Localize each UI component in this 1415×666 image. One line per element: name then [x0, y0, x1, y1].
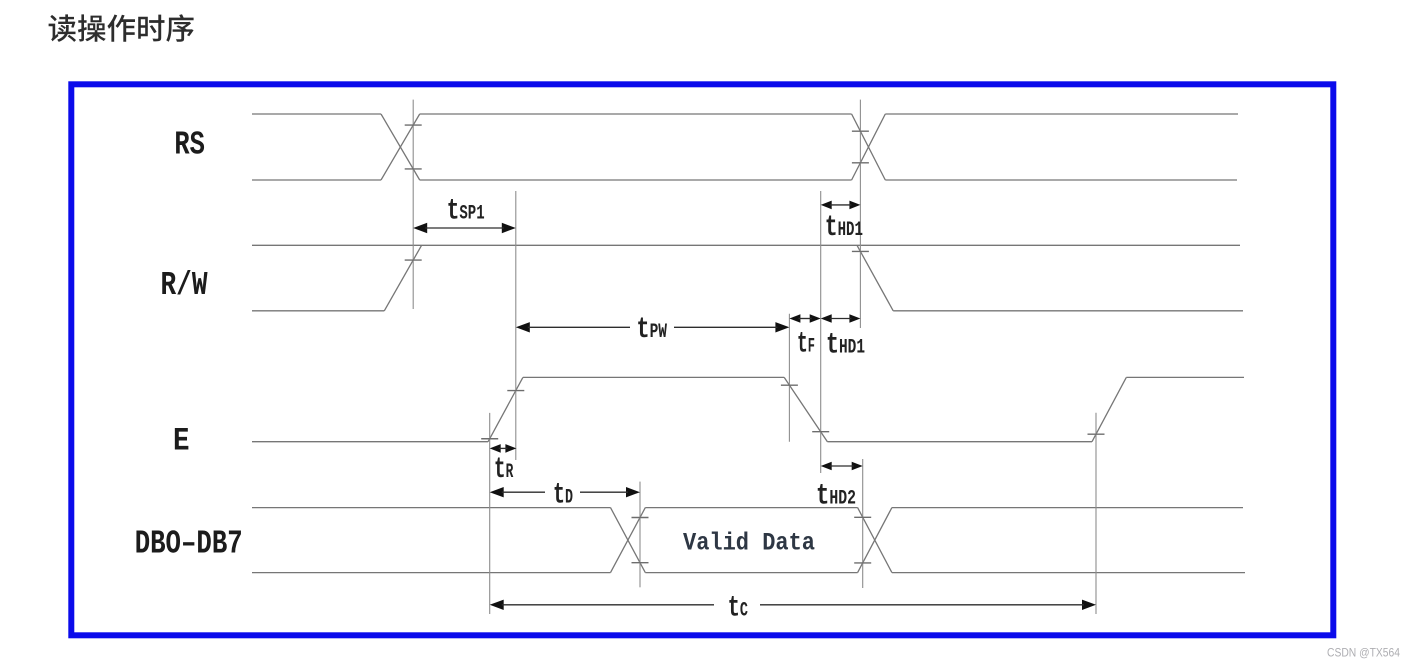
DB crossover 2 — [858, 508, 892, 573]
RS low wire — [252, 179, 381, 181]
reference line V5 tHD1 left — [820, 191, 822, 473]
diagram blue border frame — [71, 84, 1333, 635]
tick RS crossover 1 upper — [405, 124, 422, 126]
dimension arrow tD — [490, 487, 504, 497]
reference line V8 tHD2 right — [862, 459, 864, 588]
R/W rising edge — [384, 245, 421, 310]
tick R/W falling edge — [852, 250, 869, 252]
RS high wire — [252, 113, 381, 115]
reference line V9 at E rise 2 — [1095, 413, 1097, 614]
E high wire right — [1126, 376, 1244, 378]
dimension arrow tPW — [516, 322, 530, 332]
dimension arrow tHD1 upper — [821, 201, 832, 210]
svg-text:RS: RS — [174, 127, 205, 164]
E rising edge 1 — [488, 377, 523, 441]
svg-text:DBO–DB7: DBO–DB7 — [135, 525, 243, 562]
dimension arrow tR — [490, 444, 501, 453]
dimension arrow tHD1 lower — [821, 314, 832, 323]
tick E fall lower — [812, 431, 829, 433]
page title 读操作时序 — [49, 14, 194, 42]
svg-text:Valid Data: Valid Data — [683, 529, 815, 558]
R/W falling edge — [857, 245, 893, 310]
svg-text:R/W: R/W — [161, 267, 208, 304]
reference line V1 at RS change 1 — [412, 100, 414, 309]
tick E fall upper — [781, 384, 798, 386]
reference line V7 tD right — [639, 482, 641, 588]
tick DB crossover 2 upper — [854, 516, 871, 518]
tick RS crossover 1 lower — [405, 168, 422, 170]
tick DB crossover 2 lower — [854, 562, 871, 564]
tick DB crossover 1 lower — [632, 562, 649, 564]
dimension arrow tF — [789, 314, 800, 323]
R/W low wire right — [893, 310, 1243, 312]
dimension arrow tC — [490, 600, 504, 610]
DB high wire — [252, 507, 611, 509]
reference line V3 at RS change 2 — [859, 100, 861, 328]
dimension arrow tHD2 — [821, 462, 832, 471]
reference line V6 at E rise — [489, 413, 491, 614]
DB low wire — [252, 572, 611, 574]
tick RS crossover 2 lower — [852, 162, 869, 164]
R/W low wire left — [252, 310, 384, 312]
E low wire middle — [827, 441, 1092, 443]
E low wire left — [252, 441, 488, 443]
DB crossover 1 — [611, 508, 646, 573]
tick E rise 2 — [1088, 433, 1105, 435]
E high wire — [523, 376, 784, 378]
dimension arrow tSP1 — [413, 223, 427, 233]
tick RS crossover 2 upper — [852, 130, 869, 132]
svg-text:CSDN @TX564: CSDN @TX564 — [1327, 646, 1400, 660]
tick R/W rising edge — [405, 259, 422, 261]
E rising edge 2 — [1092, 377, 1126, 441]
RS crossover 2 — [852, 114, 886, 180]
tick E rise 1 lower — [481, 438, 498, 440]
tick E rise 1 upper — [507, 390, 524, 392]
RS crossover 1 — [381, 114, 420, 180]
E falling edge — [784, 377, 827, 441]
svg-text:E: E — [173, 422, 190, 459]
R/W high wire — [252, 244, 1240, 246]
reference line V4 at E fall — [788, 314, 790, 442]
tick DB crossover 1 upper — [632, 516, 649, 518]
reference line V2 tSP1 right — [515, 191, 517, 460]
